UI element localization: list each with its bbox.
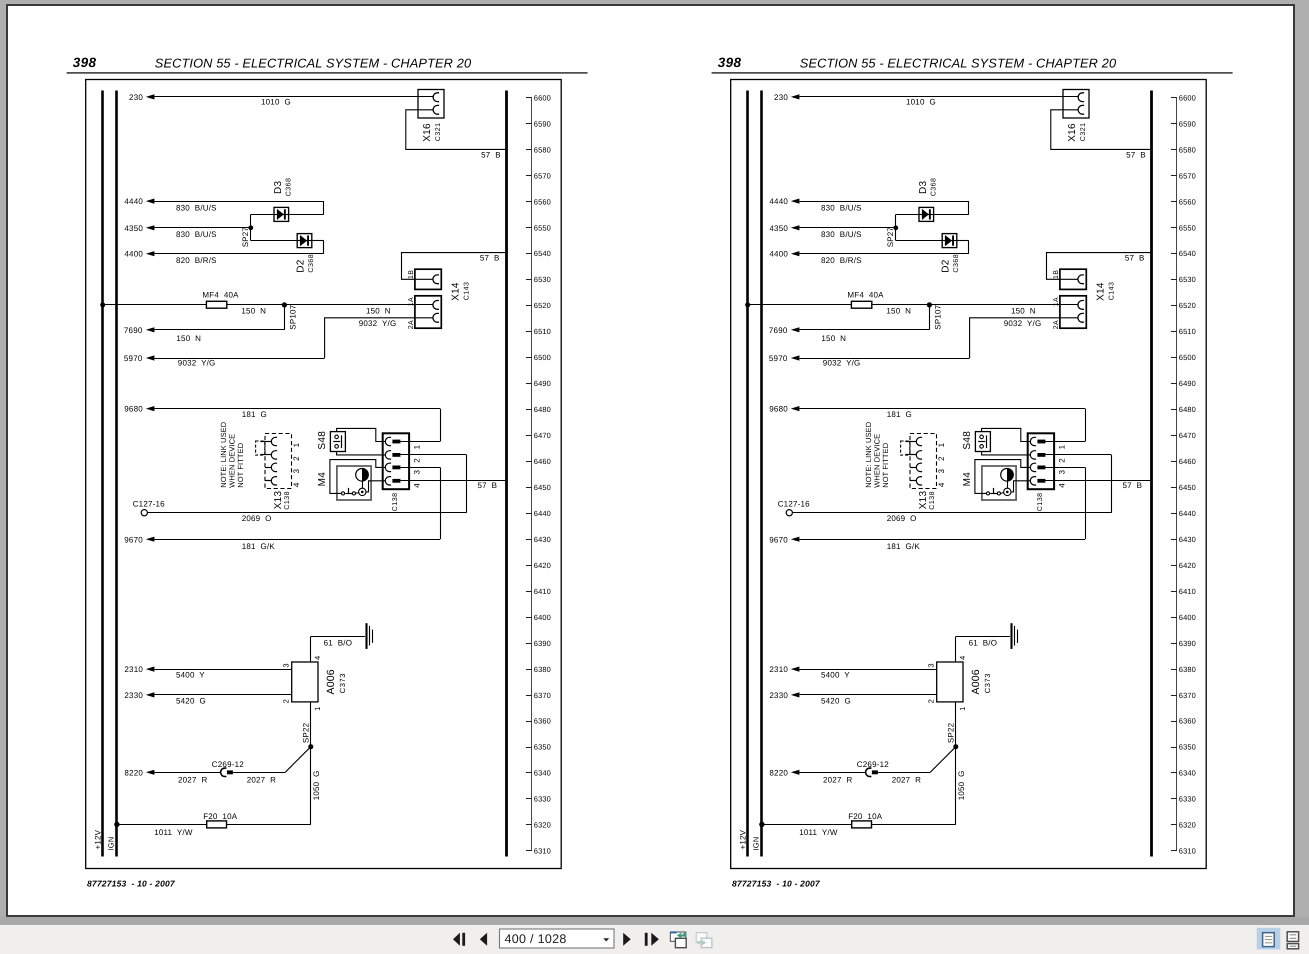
svg-text:400 / 1028: 400 / 1028 — [505, 932, 567, 946]
